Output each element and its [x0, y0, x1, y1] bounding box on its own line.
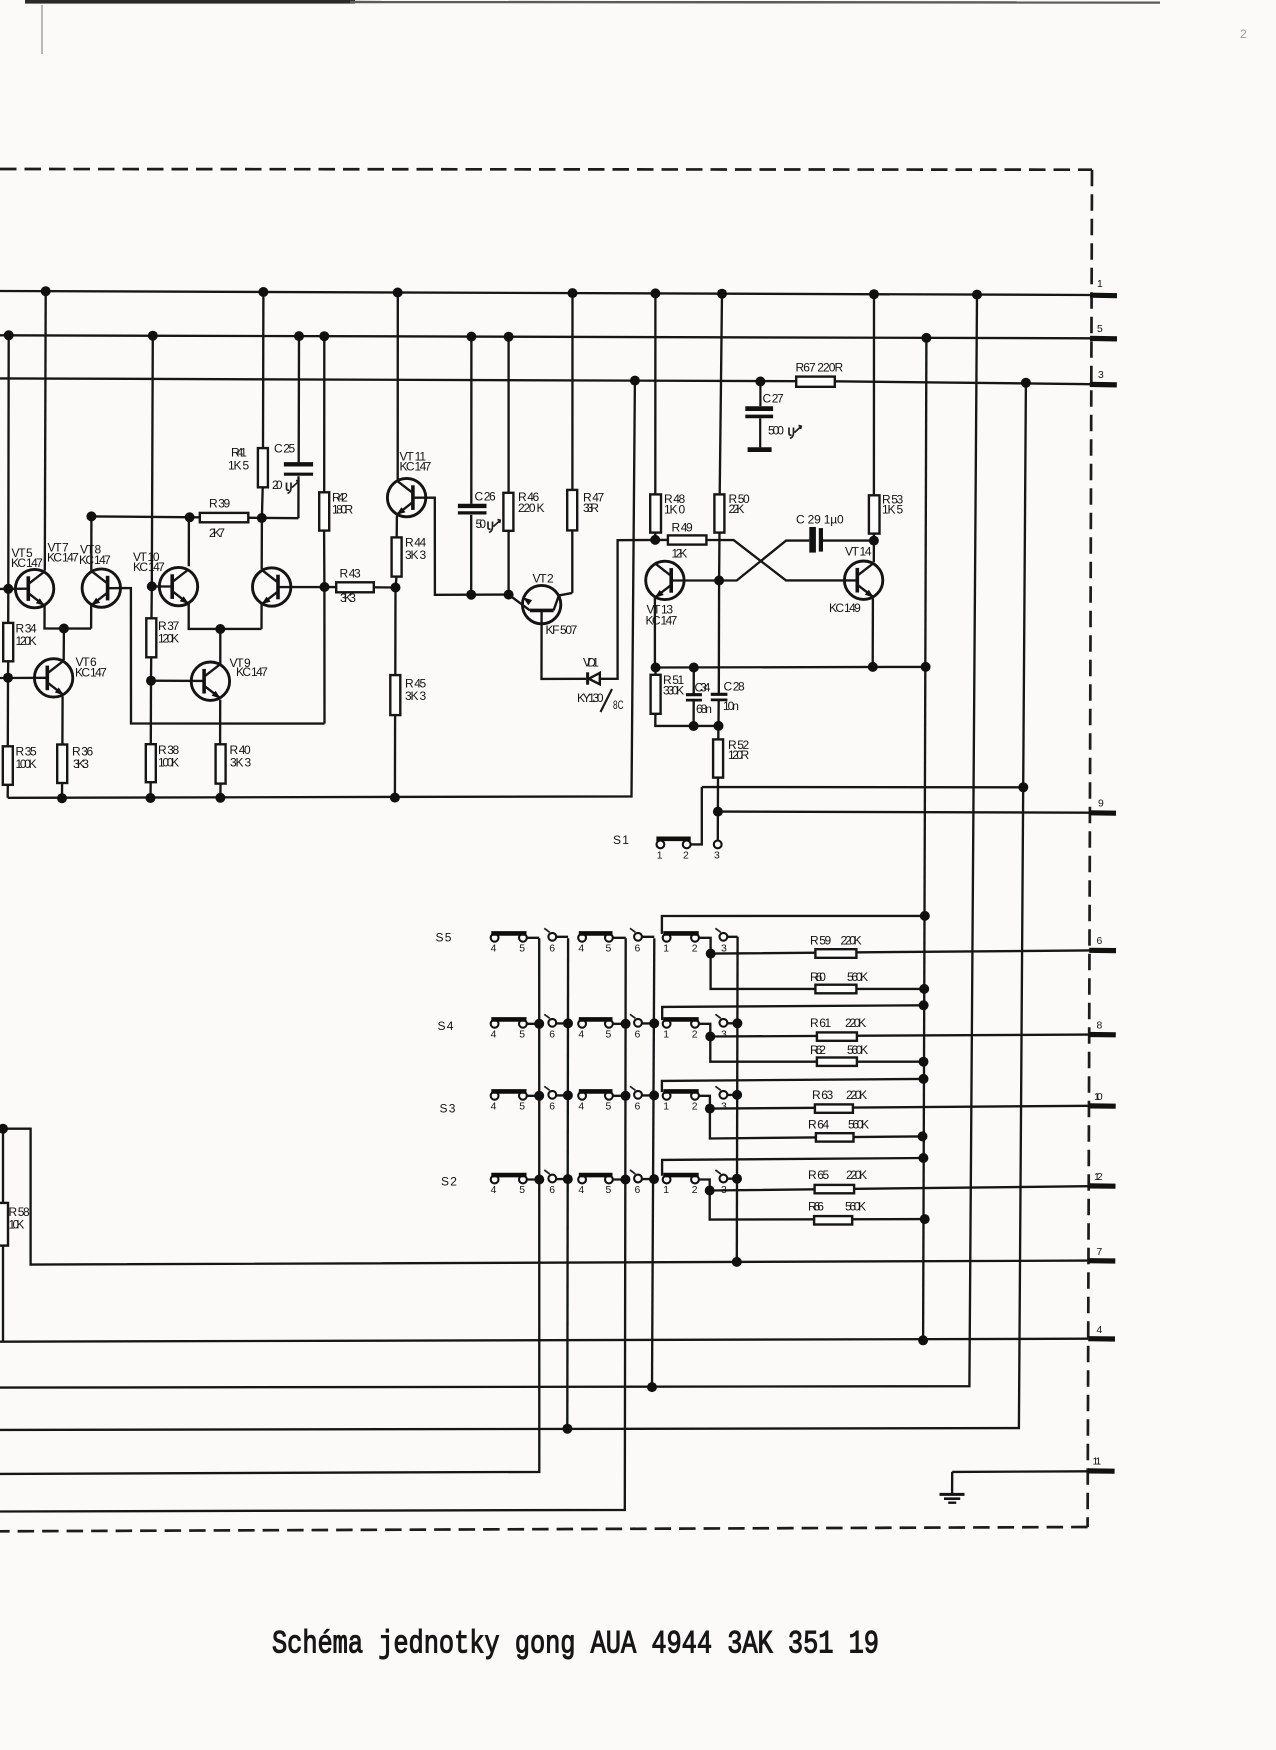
svg-text:11: 11 — [1093, 1457, 1102, 1468]
svg-text:5: 5 — [1097, 324, 1103, 335]
svg-text:220K: 220K — [846, 1088, 867, 1102]
svg-text:20: 20 — [272, 478, 283, 492]
svg-text:2: 2 — [692, 1185, 698, 1196]
svg-text:3: 3 — [721, 1030, 727, 1041]
svg-text:1K 5: 1K 5 — [882, 503, 904, 517]
svg-text:68n: 68n — [696, 702, 712, 716]
svg-text:R66: R66 — [808, 1200, 824, 1214]
svg-text:KC 147: KC 147 — [75, 666, 107, 680]
svg-text:180R: 180R — [332, 503, 354, 517]
svg-text:10n: 10n — [723, 699, 739, 713]
svg-text:S 5: S 5 — [436, 931, 452, 945]
svg-text:5: 5 — [606, 1102, 612, 1113]
svg-text:6: 6 — [635, 1185, 641, 1196]
svg-text:VD1: VD1 — [583, 656, 599, 670]
svg-text:8C: 8C — [613, 698, 624, 712]
svg-text:3: 3 — [1098, 370, 1104, 381]
svg-text:12: 12 — [1094, 1172, 1103, 1183]
svg-text:R 43: R 43 — [340, 567, 362, 581]
svg-text:Schéma jednotky gong AUA 4944: Schéma jednotky gong AUA 4944 3AK 351 19 — [272, 1626, 879, 1663]
svg-text:R67 220R: R67 220R — [796, 361, 844, 375]
svg-text:22K: 22K — [729, 502, 745, 516]
svg-text:KC 147: KC 147 — [11, 556, 43, 570]
svg-text:1: 1 — [657, 851, 663, 862]
svg-text:3K 3: 3K 3 — [230, 756, 252, 770]
svg-text:R 59: R 59 — [810, 934, 832, 948]
svg-text:4: 4 — [1097, 1325, 1103, 1336]
svg-text:R60: R60 — [810, 970, 826, 984]
svg-text:4: 4 — [491, 1030, 497, 1041]
svg-text:560K: 560K — [847, 970, 868, 984]
svg-text:KC 147: KC 147 — [236, 665, 268, 679]
svg-text:220K: 220K — [841, 934, 862, 948]
svg-text:120K: 120K — [16, 634, 37, 648]
svg-text:KC 147: KC 147 — [47, 551, 79, 565]
svg-text:R 64: R 64 — [808, 1118, 830, 1132]
svg-text:KC 147: KC 147 — [646, 614, 678, 628]
svg-text:33R: 33R — [583, 501, 599, 515]
svg-text:C 29 1µ0: C 29 1µ0 — [796, 513, 844, 527]
svg-text:3K 3: 3K 3 — [405, 548, 427, 562]
svg-text:6: 6 — [635, 1030, 641, 1041]
svg-text:2: 2 — [692, 1102, 698, 1113]
svg-text:220K: 220K — [845, 1016, 866, 1030]
svg-text:2: 2 — [1240, 27, 1247, 41]
svg-text:C 27: C 27 — [763, 392, 785, 406]
svg-text:4: 4 — [578, 1030, 584, 1041]
svg-text:C34: C34 — [695, 681, 711, 695]
svg-text:100K: 100K — [16, 757, 37, 771]
svg-text:560K: 560K — [848, 1118, 869, 1132]
svg-text:2K7: 2K7 — [209, 526, 225, 540]
svg-text:R 65: R 65 — [808, 1168, 830, 1182]
svg-text:5: 5 — [606, 1185, 612, 1196]
svg-text:1: 1 — [1097, 279, 1103, 290]
svg-text:6: 6 — [549, 1030, 555, 1041]
svg-text:R41: R41 — [231, 446, 247, 460]
svg-text:S 4: S 4 — [438, 1019, 454, 1033]
svg-text:500: 500 — [768, 424, 784, 438]
svg-text:5: 5 — [519, 1030, 525, 1041]
svg-text:C 25: C 25 — [274, 442, 296, 456]
svg-text:1K 5: 1K 5 — [228, 459, 250, 473]
svg-text:120R: 120R — [728, 748, 750, 762]
svg-text:3K3: 3K3 — [340, 591, 356, 605]
svg-text:1: 1 — [663, 1030, 669, 1041]
svg-text:5: 5 — [606, 1030, 612, 1041]
svg-text:C 26: C 26 — [475, 490, 497, 504]
svg-text:S 2: S 2 — [441, 1175, 457, 1189]
svg-text:S 1: S 1 — [613, 833, 629, 847]
svg-text:C 28: C 28 — [724, 680, 746, 694]
svg-text:8: 8 — [1097, 1021, 1103, 1032]
svg-text:4: 4 — [491, 1185, 497, 1196]
svg-text:VT 2: VT 2 — [533, 572, 555, 586]
svg-text:4: 4 — [491, 944, 497, 955]
svg-text:1: 1 — [663, 944, 669, 955]
svg-text:3: 3 — [721, 944, 727, 955]
svg-text:6: 6 — [1097, 936, 1103, 947]
svg-text:3: 3 — [721, 1102, 727, 1113]
svg-text:R 63: R 63 — [812, 1088, 834, 1102]
svg-text:3K3: 3K3 — [73, 757, 89, 771]
svg-text:5: 5 — [519, 1102, 525, 1113]
svg-text:50: 50 — [476, 517, 487, 531]
svg-text:5: 5 — [519, 944, 525, 955]
svg-text:560K: 560K — [845, 1200, 866, 1214]
svg-text:R62: R62 — [810, 1043, 826, 1057]
svg-text:6: 6 — [635, 1102, 641, 1113]
svg-text:KC 147: KC 147 — [133, 560, 165, 574]
svg-text:5: 5 — [519, 1185, 525, 1196]
svg-text:S 3: S 3 — [440, 1102, 456, 1116]
svg-text:2: 2 — [692, 1030, 698, 1041]
svg-text:1K 0: 1K 0 — [664, 503, 686, 517]
svg-text:2: 2 — [683, 851, 689, 862]
svg-text:4: 4 — [578, 1185, 584, 1196]
svg-text:3: 3 — [721, 1185, 727, 1196]
svg-text:6: 6 — [549, 1185, 555, 1196]
svg-text:KY130: KY130 — [577, 691, 604, 705]
svg-text:KC 147: KC 147 — [79, 553, 111, 567]
svg-text:6: 6 — [635, 944, 641, 955]
svg-text:3: 3 — [714, 851, 720, 862]
svg-text:560K: 560K — [847, 1043, 868, 1057]
svg-text:KF 507: KF 507 — [546, 623, 578, 637]
svg-text:2: 2 — [692, 944, 698, 955]
svg-text:120K: 120K — [158, 632, 179, 646]
svg-text:6: 6 — [549, 944, 555, 955]
svg-text:4: 4 — [578, 944, 584, 955]
svg-text:KC 149: KC 149 — [829, 601, 861, 615]
svg-text:4: 4 — [491, 1102, 497, 1113]
svg-text:1: 1 — [663, 1102, 669, 1113]
svg-text:10K: 10K — [9, 1218, 25, 1232]
svg-text:10: 10 — [1094, 1092, 1103, 1103]
svg-text:R 49: R 49 — [672, 521, 694, 535]
svg-text:6: 6 — [549, 1102, 555, 1113]
svg-text:7: 7 — [1097, 1247, 1103, 1258]
svg-text:330K: 330K — [663, 684, 684, 698]
svg-text:3K 3: 3K 3 — [405, 689, 427, 703]
svg-text:5: 5 — [606, 944, 612, 955]
svg-text:KC 147: KC 147 — [400, 460, 432, 474]
svg-text:4: 4 — [578, 1102, 584, 1113]
svg-text:1: 1 — [663, 1185, 669, 1196]
svg-text:220 K: 220 K — [518, 501, 545, 515]
svg-text:220K: 220K — [846, 1168, 867, 1182]
svg-text:9: 9 — [1098, 799, 1104, 810]
svg-text:R 61: R 61 — [810, 1016, 832, 1030]
svg-text:VT 14: VT 14 — [845, 545, 872, 559]
svg-text:100K: 100K — [158, 756, 179, 770]
svg-text:R 39: R 39 — [209, 497, 231, 511]
svg-text:12K: 12K — [672, 547, 688, 561]
